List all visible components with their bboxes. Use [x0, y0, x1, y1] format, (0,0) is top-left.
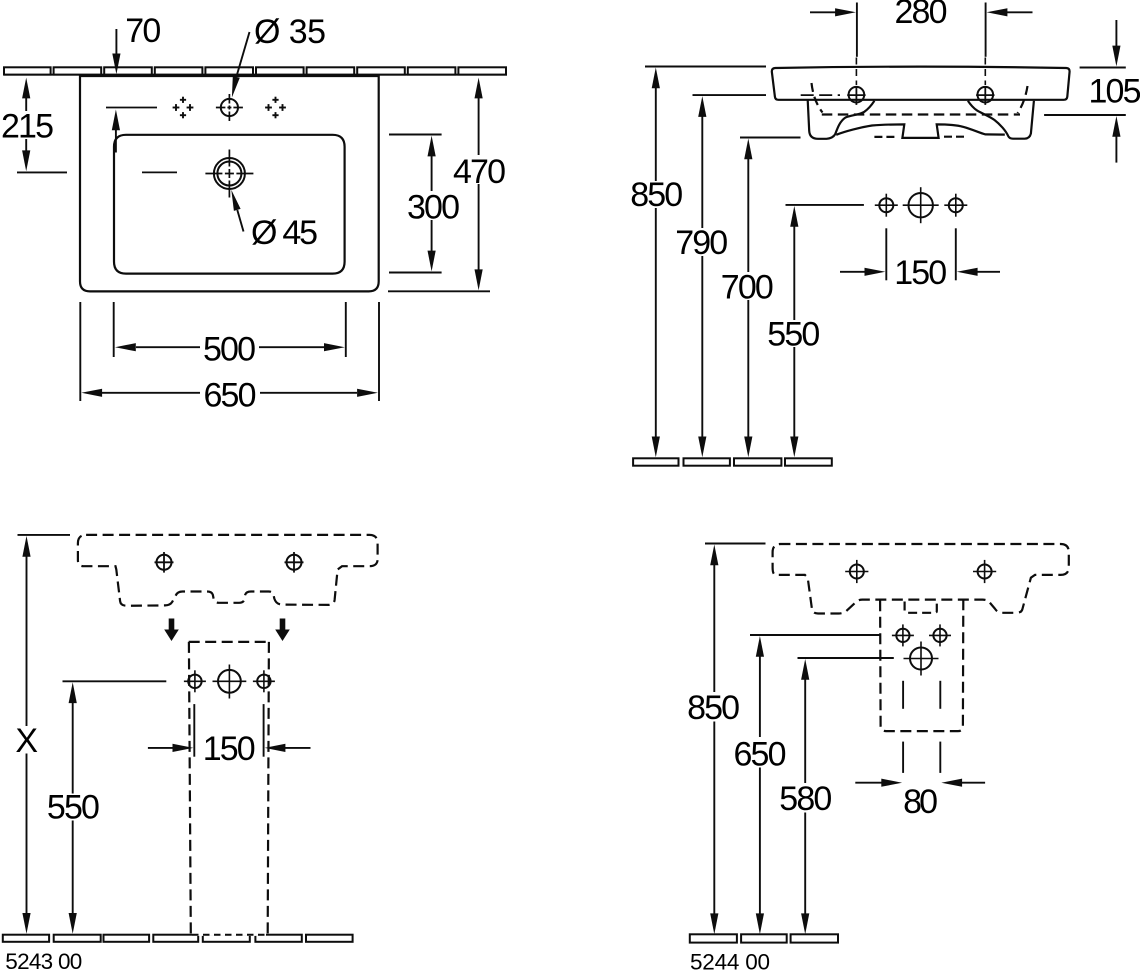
svg-text:80: 80 [903, 783, 938, 821]
tap hole small right front [949, 198, 963, 212]
basin underside right wing and leg [968, 101, 1034, 139]
hidden floor edge under pedestal [192, 934, 266, 936]
supply hole small right 5244 [933, 629, 946, 642]
dimension 790 top extension [693, 94, 767, 96]
svg-text:300: 300 [407, 189, 460, 227]
mounting hole left 5244 [850, 565, 864, 579]
inner bowl outline plan [114, 135, 345, 274]
pedestal left side dashed [189, 642, 191, 934]
hidden drain recess dashes [874, 136, 894, 138]
dimension 850 line [655, 87, 657, 182]
svg-text:150: 150 [203, 730, 256, 768]
tap hole Ø35 circle [221, 99, 238, 116]
floor tile band 5244 [690, 934, 838, 942]
mounting hole left 5243 [157, 555, 172, 570]
dimension 470 extension line [388, 290, 490, 292]
svg-text:Ø 45: Ø 45 [251, 214, 318, 252]
tap hole Ø35 centre cross [228, 94, 230, 121]
mounting direction arrow right [275, 619, 290, 642]
tap hole small left front [879, 198, 893, 212]
floor tile band front [633, 458, 832, 465]
dimension 80 left arrow [855, 782, 884, 784]
basin rim band front [772, 67, 1070, 100]
dimension X line [26, 555, 28, 726]
dimension 790 line [701, 115, 703, 228]
tap hole centre line [106, 107, 157, 109]
basin underside lower contour with drain boss [836, 124, 1005, 137]
dimension X top extension [18, 534, 71, 536]
svg-text:5243 00: 5243 00 [5, 949, 82, 970]
dimension 215 extension line [17, 171, 67, 173]
dimension 105 bottom arrow [1112, 116, 1120, 137]
svg-text:650: 650 [204, 376, 257, 414]
dimension 150 left arrow 5243 [148, 747, 174, 749]
dimension 280 left arrow [810, 11, 836, 13]
svg-text:500: 500 [203, 331, 256, 369]
svg-text:850: 850 [687, 689, 740, 727]
hidden bowl left slant dashed [812, 83, 823, 113]
dimension 550 top extension 5243 [63, 680, 167, 682]
dimension 850 line 5244 [713, 564, 715, 692]
supply hole small left 5243 [188, 675, 201, 688]
svg-text:550: 550 [767, 315, 820, 353]
svg-text:280: 280 [895, 0, 948, 31]
svg-text:Ø 35: Ø 35 [254, 13, 326, 51]
dimension 650 extension lines [79, 302, 81, 401]
dimension 500 line [136, 346, 200, 348]
hidden bowl right slant dashed [1018, 86, 1028, 113]
dimension 70 upper arrow [115, 29, 117, 56]
dimension 80 right arrow [961, 782, 985, 784]
dimension 700 line [747, 158, 749, 273]
dimension 150 left arrow front [840, 271, 866, 273]
dimension 105 top extension [1080, 67, 1126, 69]
dimension 150 right arrow 5243 [285, 747, 311, 749]
wall line [4, 74, 507, 76]
svg-text:105: 105 [1089, 73, 1140, 111]
leader line Ø45 [237, 210, 243, 232]
drain centre line dash [142, 171, 177, 173]
floor tile band 5243 [3, 935, 353, 942]
dimension 300 line [431, 155, 433, 191]
washbasin outer outline plan [80, 76, 379, 291]
basin underside left leg and wing [808, 100, 875, 139]
svg-text:150: 150 [894, 254, 947, 292]
dimension 150 right arrow front [977, 271, 1000, 273]
mounting hole left [849, 87, 865, 103]
dimension 700 top extension [740, 137, 801, 139]
wall tile band [4, 67, 506, 74]
drain centre cross [228, 150, 230, 198]
svg-text:215: 215 [1, 108, 54, 146]
dimension 580 top extension 5244 [798, 657, 894, 659]
basin outline dashed 5244 [773, 544, 1069, 614]
svg-text:650: 650 [734, 735, 787, 773]
drain hole outer circle [214, 158, 245, 189]
dimension 470 line [478, 97, 480, 155]
supply hole small right 5243 [257, 675, 270, 688]
dimension 850 top extension 5244 [705, 543, 766, 545]
drain hole centre 5244 [910, 648, 932, 670]
dimension 70 lower arrow [115, 129, 117, 153]
dimension 150 extension lines front [885, 228, 887, 280]
svg-text:790: 790 [675, 224, 728, 262]
hidden bowl edge dashed [822, 113, 1020, 115]
dimension 650 top extension 5244 [750, 634, 880, 636]
svg-text:550: 550 [47, 788, 100, 826]
dimension 105 top arrow [1115, 20, 1117, 46]
mounting hole right [978, 87, 994, 103]
drain hole inner circle [217, 162, 241, 186]
mounting hole right 5244 [978, 565, 992, 579]
dimension 550 line 5243 [72, 702, 74, 794]
dimension 850 top extension [645, 66, 766, 68]
dimension 580 line 5244 [804, 679, 806, 784]
dimension 280 tick left [856, 3, 858, 57]
siphon cover dashed [880, 600, 963, 731]
dimension 105 bottom extension [1044, 114, 1126, 116]
hidden drain boss dashed 5244 [905, 602, 937, 613]
dimension 300 extension lines [389, 134, 442, 136]
svg-text:700: 700 [721, 268, 774, 306]
dimension 650 line 5244 [759, 656, 761, 738]
optional tap hole mark left [173, 97, 194, 119]
dimension 280 right arrow [1007, 11, 1033, 13]
dimension 550 line [793, 225, 795, 320]
pedestal top edge dashed [189, 641, 270, 643]
drain hole centre 5243 [218, 670, 241, 693]
mounting hole right 5243 [287, 555, 302, 570]
svg-text:580: 580 [779, 780, 832, 818]
basin outline dashed 5243 [78, 535, 378, 606]
pedestal right side dashed [268, 642, 269, 934]
dimension 150 extension lines 5243 [193, 704, 195, 757]
leader line Ø35 [236, 32, 249, 77]
mounting direction arrow left [164, 619, 179, 642]
svg-text:850: 850 [630, 176, 683, 214]
svg-text:470: 470 [453, 153, 506, 191]
svg-text:5244 00: 5244 00 [690, 950, 770, 970]
dimension 500 extension lines [113, 302, 115, 357]
tap hole centre front [909, 193, 933, 217]
optional tap hole mark right [265, 97, 286, 119]
dimension 280 tick right [985, 3, 987, 57]
svg-text:X: X [15, 722, 38, 760]
dimension 80 extension lines [902, 681, 904, 709]
svg-text:70: 70 [125, 12, 161, 50]
dimension 650 line [102, 392, 200, 394]
dimension 215 line [25, 96, 27, 111]
dimension 550 top extension [786, 204, 864, 206]
supply hole small left 5244 [896, 629, 909, 642]
